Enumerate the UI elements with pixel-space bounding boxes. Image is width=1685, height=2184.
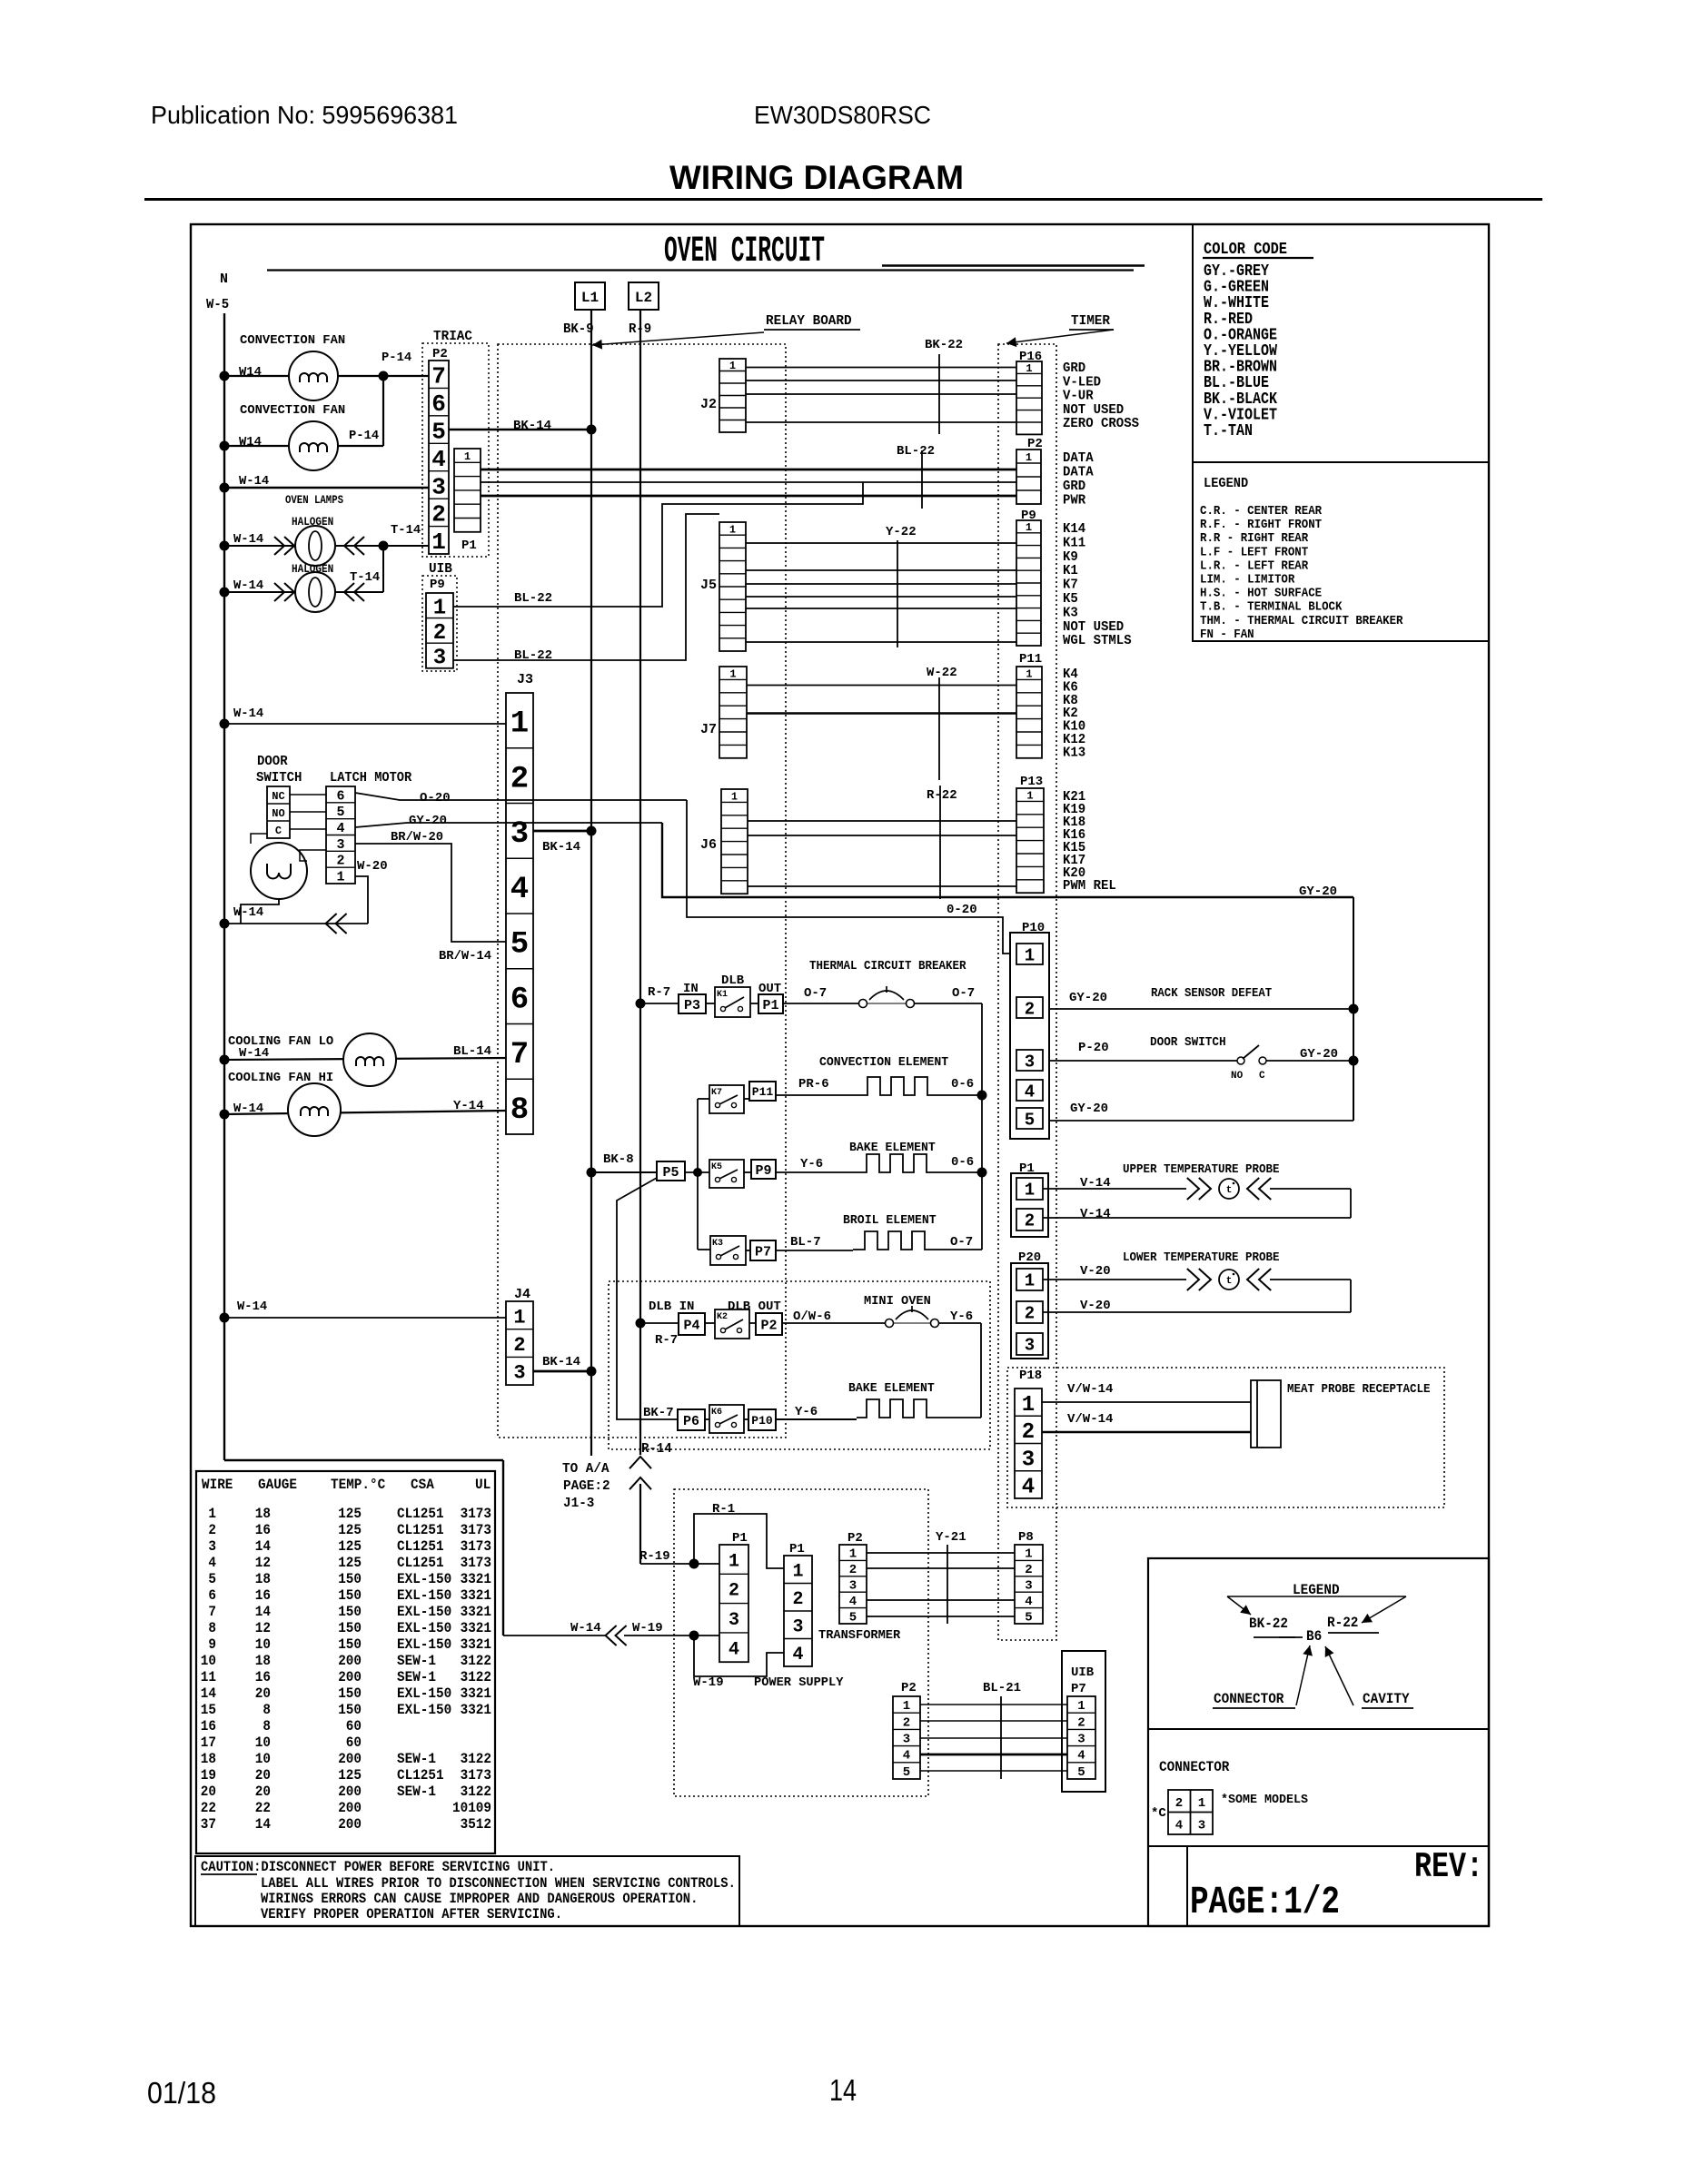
svg-text:22: 22 [201, 1800, 216, 1816]
svg-text:P9: P9 [755, 1163, 771, 1179]
svg-text:P1: P1 [732, 1531, 748, 1546]
svg-text:V-20: V-20 [1080, 1264, 1111, 1279]
svg-text:UIB: UIB [1071, 1665, 1095, 1680]
svg-text:CAUTION:DISCONNECT POWER BEFOR: CAUTION:DISCONNECT POWER BEFORE SERVICIN… [201, 1859, 555, 1875]
svg-text:4: 4 [903, 1749, 910, 1764]
svg-text:150: 150 [338, 1702, 362, 1718]
svg-text:THERMAL CIRCUIT BREAKER: THERMAL CIRCUIT BREAKER [809, 959, 966, 973]
svg-text:2: 2 [433, 621, 446, 646]
svg-text:K6: K6 [711, 1408, 722, 1418]
svg-text:V-14: V-14 [1080, 1207, 1111, 1221]
svg-text:4: 4 [1077, 1749, 1085, 1764]
svg-text:Y-6: Y-6 [800, 1157, 823, 1171]
svg-text:P-14: P-14 [382, 351, 411, 365]
svg-text:2: 2 [1025, 1211, 1035, 1231]
svg-text:4: 4 [792, 1645, 803, 1665]
svg-text:2: 2 [1025, 1304, 1035, 1324]
svg-text:2: 2 [1175, 1796, 1183, 1811]
svg-text:1: 1 [1026, 668, 1032, 681]
svg-text:P-14: P-14 [349, 429, 379, 443]
svg-text:UIB: UIB [429, 561, 452, 577]
svg-text:2: 2 [903, 1715, 910, 1730]
svg-text:1: 1 [208, 1506, 216, 1522]
svg-text:P1: P1 [762, 998, 778, 1013]
svg-text:3122: 3122 [461, 1751, 491, 1767]
svg-text:P-20: P-20 [1078, 1041, 1109, 1055]
svg-text:K3: K3 [712, 1239, 723, 1249]
svg-text:DOOR: DOOR [257, 754, 288, 769]
svg-text:17: 17 [201, 1734, 216, 1751]
svg-text:CL1251: CL1251 [397, 1506, 444, 1522]
svg-text:WGL STMLS: WGL STMLS [1063, 633, 1132, 648]
svg-text:2: 2 [1025, 999, 1035, 1019]
svg-text:3173: 3173 [461, 1767, 491, 1784]
svg-text:GY-20: GY-20 [409, 814, 447, 828]
svg-text:LIM. - LIMITOR: LIM. - LIMITOR [1200, 574, 1295, 588]
svg-text:T.-TAN: T.-TAN [1204, 422, 1253, 440]
svg-text:SEW-1: SEW-1 [397, 1784, 436, 1800]
svg-text:3173: 3173 [461, 1555, 491, 1571]
svg-text:3: 3 [1198, 1819, 1205, 1833]
svg-text:125: 125 [338, 1538, 362, 1555]
svg-text:5: 5 [849, 1610, 857, 1625]
svg-text:R.R - RIGHT REAR: R.R - RIGHT REAR [1200, 532, 1309, 546]
svg-text:Y-22: Y-22 [886, 525, 917, 539]
svg-text:EW30DS80RSC: EW30DS80RSC [754, 101, 931, 129]
svg-text:PAGE:1/2: PAGE:1/2 [1190, 1880, 1340, 1924]
svg-text:J2: J2 [700, 397, 717, 412]
svg-text:5: 5 [431, 418, 446, 445]
svg-text:PAGE:2: PAGE:2 [563, 1478, 610, 1494]
svg-text:2: 2 [849, 1563, 857, 1577]
svg-text:Y-21: Y-21 [936, 1530, 966, 1545]
svg-text:20: 20 [255, 1767, 271, 1784]
svg-text:BL-22: BL-22 [897, 444, 935, 459]
svg-text:150: 150 [338, 1571, 362, 1587]
svg-text:16: 16 [201, 1718, 216, 1734]
svg-text:K13: K13 [1063, 745, 1085, 760]
svg-text:PR-6: PR-6 [798, 1077, 829, 1092]
svg-text:POWER SUPPLY: POWER SUPPLY [754, 1675, 844, 1690]
svg-text:3321: 3321 [461, 1702, 491, 1718]
svg-text:ZERO CROSS: ZERO CROSS [1063, 416, 1139, 431]
svg-text:0-6: 0-6 [951, 1155, 974, 1170]
svg-text:SEW-1: SEW-1 [397, 1653, 436, 1669]
svg-text:11: 11 [201, 1669, 216, 1685]
svg-text:19: 19 [201, 1767, 216, 1784]
svg-text:EXL-150: EXL-150 [397, 1685, 451, 1702]
svg-text:TIMER: TIMER [1071, 313, 1110, 329]
svg-text:DATA: DATA [1063, 450, 1094, 466]
svg-text:DATA: DATA [1063, 465, 1094, 480]
svg-text:R-22: R-22 [1327, 1615, 1358, 1631]
svg-text:R-7: R-7 [655, 1333, 678, 1348]
svg-text:BK-9: BK-9 [563, 321, 594, 337]
svg-text:3512: 3512 [461, 1816, 491, 1833]
svg-text:150: 150 [338, 1685, 362, 1702]
svg-text:2: 2 [1025, 1563, 1032, 1577]
svg-text:3321: 3321 [461, 1587, 491, 1604]
svg-text:2: 2 [792, 1589, 803, 1610]
svg-text:20: 20 [201, 1784, 216, 1800]
svg-text:J6: J6 [700, 837, 717, 853]
svg-text:3: 3 [1025, 1052, 1035, 1072]
svg-text:01/18: 01/18 [147, 2076, 216, 2110]
svg-text:BK-14: BK-14 [542, 1355, 580, 1369]
svg-text:CL1251: CL1251 [397, 1522, 444, 1538]
svg-text:GY-20: GY-20 [1300, 1047, 1338, 1062]
svg-text:J4: J4 [514, 1287, 530, 1302]
svg-text:L2: L2 [635, 290, 652, 306]
svg-text:200: 200 [338, 1653, 362, 1669]
svg-text:16: 16 [255, 1522, 271, 1538]
svg-text:W-14: W-14 [233, 707, 263, 721]
svg-text:TRIAC: TRIAC [433, 329, 472, 344]
svg-text:200: 200 [338, 1816, 362, 1833]
svg-text:60: 60 [346, 1718, 362, 1734]
svg-text:5: 5 [510, 928, 529, 963]
svg-text:K5: K5 [711, 1162, 722, 1172]
svg-text:BK-14: BK-14 [513, 419, 551, 433]
svg-text:P10: P10 [751, 1414, 773, 1428]
svg-text:0-20: 0-20 [947, 903, 977, 917]
svg-text:4: 4 [1022, 1476, 1035, 1500]
svg-text:3321: 3321 [461, 1636, 491, 1653]
svg-text:14: 14 [255, 1816, 272, 1833]
svg-text:3321: 3321 [461, 1685, 491, 1702]
svg-text:P7: P7 [1071, 1682, 1086, 1696]
svg-text:4: 4 [336, 821, 344, 836]
svg-text:B6: B6 [1306, 1628, 1322, 1645]
svg-text:CONVECTION FAN: CONVECTION FAN [240, 403, 345, 418]
svg-text:SEW-1: SEW-1 [397, 1751, 436, 1767]
svg-text:1: 1 [513, 1306, 525, 1329]
svg-text:R-14: R-14 [641, 1441, 672, 1457]
svg-text:4: 4 [1025, 1595, 1032, 1609]
svg-text:7: 7 [431, 363, 446, 390]
svg-text:W-14: W-14 [570, 1621, 601, 1636]
svg-text:150: 150 [338, 1620, 362, 1636]
svg-text:4: 4 [729, 1639, 739, 1660]
svg-text:10: 10 [201, 1653, 216, 1669]
svg-text:PWM REL: PWM REL [1063, 878, 1116, 894]
svg-text:V/W-14: V/W-14 [1067, 1382, 1113, 1397]
svg-text:P2: P2 [760, 1318, 777, 1333]
svg-text:C: C [1259, 1071, 1265, 1082]
svg-text:3321: 3321 [461, 1604, 491, 1620]
svg-text:W-5: W-5 [206, 297, 229, 312]
svg-text:5: 5 [336, 805, 344, 820]
svg-text:J3: J3 [517, 672, 533, 687]
svg-text:P6: P6 [683, 1414, 699, 1429]
svg-text:1: 1 [729, 360, 736, 372]
svg-text:P2: P2 [901, 1681, 917, 1695]
svg-text:BK-14: BK-14 [542, 840, 580, 855]
svg-text:4: 4 [208, 1555, 216, 1571]
svg-text:8: 8 [208, 1620, 216, 1636]
svg-text:MINI OVEN: MINI OVEN [864, 1294, 931, 1309]
svg-text:DLB IN: DLB IN [649, 1300, 694, 1314]
svg-text:3: 3 [510, 817, 529, 852]
svg-text:O/W-6: O/W-6 [793, 1309, 831, 1324]
svg-text:T.B. - TERMINAL BLOCK: T.B. - TERMINAL BLOCK [1200, 601, 1343, 615]
svg-text:3122: 3122 [461, 1653, 491, 1669]
svg-text:3321: 3321 [461, 1571, 491, 1587]
svg-text:GRD: GRD [1063, 479, 1085, 494]
svg-text:CAVITY: CAVITY [1363, 1691, 1410, 1707]
svg-text:NO: NO [272, 807, 284, 820]
svg-text:3: 3 [433, 647, 446, 671]
svg-text:BAKE ELEMENT: BAKE ELEMENT [848, 1381, 935, 1396]
svg-text:W-19: W-19 [632, 1621, 663, 1636]
svg-text:125: 125 [338, 1555, 362, 1571]
svg-text:GY-20: GY-20 [1069, 991, 1107, 1005]
svg-text:VERIFY PROPER OPERATION AFTER: VERIFY PROPER OPERATION AFTER SERVICING. [261, 1906, 562, 1922]
svg-text:1: 1 [1025, 945, 1035, 965]
svg-text:22: 22 [255, 1800, 271, 1816]
svg-text:W-20: W-20 [357, 859, 388, 874]
svg-text:BL-14: BL-14 [453, 1044, 491, 1059]
svg-text:SWITCH: SWITCH [256, 770, 302, 786]
svg-text:6: 6 [510, 983, 529, 1017]
svg-text:14: 14 [201, 1685, 217, 1702]
svg-text:EXL-150: EXL-150 [397, 1636, 451, 1653]
svg-text:12: 12 [255, 1620, 271, 1636]
svg-text:L.R. - LEFT REAR: L.R. - LEFT REAR [1200, 559, 1309, 573]
svg-text:SEW-1: SEW-1 [397, 1669, 436, 1685]
svg-text:CL1251: CL1251 [397, 1538, 444, 1555]
svg-text:P13: P13 [1020, 775, 1043, 789]
svg-text:3: 3 [1022, 1448, 1035, 1472]
svg-text:P5: P5 [662, 1165, 679, 1181]
svg-text:8: 8 [263, 1702, 271, 1718]
svg-text:18: 18 [255, 1506, 271, 1522]
svg-text:OVEN LAMPS: OVEN LAMPS [285, 494, 343, 507]
svg-text:V/W-14: V/W-14 [1067, 1412, 1113, 1427]
svg-text:WIRE: WIRE [202, 1477, 233, 1493]
svg-text:LOWER TEMPERATURE PROBE: LOWER TEMPERATURE PROBE [1123, 1251, 1280, 1265]
svg-text:EXL-150: EXL-150 [397, 1604, 451, 1620]
svg-text:3: 3 [1025, 1336, 1035, 1356]
svg-text:W-14: W-14 [239, 1046, 269, 1061]
svg-text:P1: P1 [789, 1542, 805, 1556]
svg-text:P7: P7 [755, 1244, 771, 1260]
svg-text:N: N [220, 272, 228, 287]
svg-text:1: 1 [336, 869, 344, 884]
svg-text:2: 2 [1077, 1715, 1085, 1730]
svg-text:4: 4 [849, 1595, 857, 1609]
svg-text:Y-6: Y-6 [795, 1405, 818, 1419]
svg-text:WIRING DIAGRAM: WIRING DIAGRAM [669, 159, 964, 196]
svg-text:4: 4 [1175, 1819, 1183, 1833]
svg-text:PWR: PWR [1063, 493, 1085, 509]
svg-text:3: 3 [431, 473, 446, 500]
svg-text:1: 1 [1025, 1181, 1035, 1201]
svg-text:14: 14 [255, 1604, 272, 1620]
svg-text:3122: 3122 [461, 1784, 491, 1800]
svg-text:CONNECTOR: CONNECTOR [1159, 1759, 1230, 1775]
svg-text:1: 1 [729, 523, 736, 536]
svg-text:14: 14 [829, 2073, 857, 2107]
svg-text:BL-22: BL-22 [514, 591, 552, 606]
svg-text:2: 2 [513, 1334, 525, 1357]
svg-text:C: C [275, 825, 282, 837]
svg-text:150: 150 [338, 1636, 362, 1653]
svg-text:1: 1 [731, 791, 738, 804]
svg-text:GAUGE: GAUGE [258, 1477, 297, 1493]
svg-text:1: 1 [1022, 1393, 1035, 1418]
svg-text:CSA: CSA [411, 1477, 434, 1493]
svg-text:CONVECTION FAN: CONVECTION FAN [240, 333, 345, 348]
svg-text:3: 3 [336, 837, 344, 853]
svg-text:THM. - THERMAL CIRCUIT BREAKER: THM. - THERMAL CIRCUIT BREAKER [1200, 615, 1403, 628]
svg-text:18: 18 [255, 1571, 271, 1587]
svg-text:EXL-150: EXL-150 [397, 1571, 451, 1587]
svg-text:3173: 3173 [461, 1506, 491, 1522]
svg-text:2: 2 [510, 762, 529, 796]
svg-text:LATCH MOTOR: LATCH MOTOR [330, 770, 411, 786]
svg-text:Y-14: Y-14 [453, 1099, 484, 1113]
svg-text:3: 3 [1025, 1579, 1032, 1594]
svg-text:TO A/A: TO A/A [562, 1461, 610, 1477]
svg-text:DOOR SWITCH: DOOR SWITCH [1150, 1035, 1226, 1050]
svg-text:GY-20: GY-20 [1299, 884, 1337, 899]
svg-text:1: 1 [1026, 451, 1032, 464]
svg-text:t: t [1226, 1276, 1233, 1287]
svg-text:TEMP.°C: TEMP.°C [331, 1477, 386, 1493]
svg-text:5: 5 [208, 1571, 216, 1587]
svg-text:3: 3 [513, 1362, 525, 1385]
svg-text:1: 1 [1025, 1547, 1032, 1562]
svg-text:14: 14 [255, 1538, 272, 1555]
svg-text:L.F - LEFT FRONT: L.F - LEFT FRONT [1200, 546, 1308, 559]
svg-text:EXL-150: EXL-150 [397, 1702, 451, 1718]
svg-text:P11: P11 [752, 1085, 774, 1099]
svg-text:GY-20: GY-20 [1070, 1102, 1108, 1116]
svg-text:5: 5 [1025, 1110, 1035, 1130]
svg-text:*C: *C [1151, 1806, 1166, 1821]
svg-text:7: 7 [510, 1038, 529, 1072]
svg-text:BK-7: BK-7 [643, 1406, 674, 1420]
svg-text:9: 9 [208, 1636, 216, 1653]
svg-text:R-19: R-19 [639, 1549, 670, 1564]
svg-text:RELAY BOARD: RELAY BOARD [766, 313, 852, 329]
svg-text:150: 150 [338, 1587, 362, 1604]
svg-text:1: 1 [510, 707, 529, 742]
svg-text:CL1251: CL1251 [397, 1555, 444, 1571]
svg-text:W14: W14 [239, 365, 262, 380]
svg-text:t: t [1226, 1185, 1233, 1196]
svg-text:BL-7: BL-7 [790, 1235, 821, 1250]
svg-text:1: 1 [849, 1547, 857, 1562]
svg-text:REV:: REV: [1414, 1847, 1483, 1887]
svg-text:O-20: O-20 [420, 791, 451, 805]
svg-text:8: 8 [263, 1718, 271, 1734]
svg-text:NC: NC [272, 790, 284, 803]
svg-text:P2: P2 [847, 1531, 863, 1546]
svg-text:2: 2 [336, 854, 344, 869]
svg-text:BK-8: BK-8 [603, 1152, 634, 1167]
svg-text:10: 10 [255, 1751, 271, 1767]
svg-text:P11: P11 [1019, 652, 1042, 667]
svg-text:15: 15 [201, 1702, 216, 1718]
svg-text:WIRINGS ERRORS CAN CAUSE IMPRO: WIRINGS ERRORS CAN CAUSE IMPROPER AND DA… [261, 1891, 698, 1907]
svg-text:CONVECTION ELEMENT: CONVECTION ELEMENT [819, 1055, 948, 1070]
svg-text:1: 1 [1026, 790, 1033, 803]
svg-text:1: 1 [433, 596, 446, 620]
svg-text:FN - FAN: FN - FAN [1200, 628, 1254, 642]
svg-text:LEGEND: LEGEND [1204, 476, 1248, 491]
svg-text:150: 150 [338, 1604, 362, 1620]
svg-text:200: 200 [338, 1751, 362, 1767]
svg-text:4: 4 [1025, 1082, 1035, 1102]
svg-text:R-7: R-7 [648, 985, 670, 1000]
svg-text:R-22: R-22 [927, 788, 957, 803]
svg-text:L1: L1 [581, 290, 599, 306]
svg-text:BR/W-14: BR/W-14 [439, 949, 491, 964]
svg-text:J5: J5 [700, 578, 717, 593]
svg-text:Y-6: Y-6 [950, 1309, 973, 1324]
svg-text:1: 1 [464, 450, 471, 463]
svg-text:1: 1 [1026, 362, 1032, 375]
svg-text:3173: 3173 [461, 1538, 491, 1555]
svg-text:1: 1 [729, 1551, 739, 1572]
svg-text:P2: P2 [432, 347, 448, 361]
svg-text:BAKE ELEMENT: BAKE ELEMENT [849, 1141, 936, 1155]
svg-text:6: 6 [336, 788, 344, 804]
svg-text:W-14: W-14 [237, 1300, 267, 1314]
svg-text:6: 6 [431, 390, 446, 418]
svg-text:2: 2 [729, 1581, 739, 1602]
svg-text:1: 1 [431, 529, 446, 556]
svg-text:18: 18 [201, 1751, 216, 1767]
svg-text:P18: P18 [1019, 1369, 1042, 1383]
svg-text:CONNECTOR: CONNECTOR [1214, 1691, 1284, 1707]
svg-text:T-14: T-14 [350, 570, 380, 585]
svg-text:K1: K1 [717, 990, 728, 1000]
svg-text:W-22: W-22 [927, 666, 957, 680]
svg-text:16: 16 [255, 1587, 271, 1604]
svg-text:MEAT PROBE RECEPTACLE: MEAT PROBE RECEPTACLE [1287, 1383, 1431, 1397]
svg-text:BR/W-20: BR/W-20 [391, 830, 443, 845]
svg-text:P1: P1 [461, 539, 477, 553]
svg-text:TRANSFORMER: TRANSFORMER [818, 1628, 901, 1643]
svg-text:1: 1 [1026, 521, 1032, 534]
svg-text:1: 1 [1198, 1796, 1205, 1811]
svg-text:W-14: W-14 [233, 578, 263, 593]
svg-text:4: 4 [431, 446, 446, 473]
svg-text:3122: 3122 [461, 1669, 491, 1685]
svg-text:C.R. - CENTER REAR: C.R. - CENTER REAR [1200, 505, 1323, 519]
svg-text:CL1251: CL1251 [397, 1767, 444, 1784]
svg-text:200: 200 [338, 1669, 362, 1685]
svg-text:J7: J7 [700, 722, 717, 737]
svg-text:DLB: DLB [721, 973, 745, 988]
svg-text:T-14: T-14 [391, 523, 421, 538]
svg-text:3: 3 [208, 1538, 216, 1555]
svg-text:200: 200 [338, 1800, 362, 1816]
svg-text:1: 1 [1077, 1699, 1085, 1714]
svg-text:125: 125 [338, 1506, 362, 1522]
svg-text:W-14: W-14 [239, 474, 269, 489]
svg-text:12: 12 [255, 1555, 271, 1571]
svg-text:125: 125 [338, 1767, 362, 1784]
svg-text:P4: P4 [683, 1318, 699, 1333]
svg-text:OVEN CIRCUIT: OVEN CIRCUIT [664, 232, 825, 272]
svg-text:P3: P3 [684, 998, 700, 1013]
svg-text:P8: P8 [1018, 1530, 1034, 1545]
svg-text:1: 1 [792, 1561, 803, 1582]
